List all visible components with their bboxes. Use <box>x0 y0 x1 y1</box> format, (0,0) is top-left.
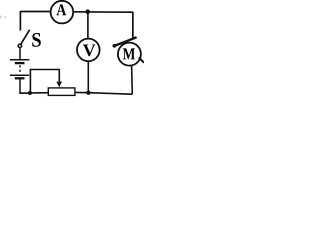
wire bottom left segment <box>19 92 48 95</box>
battery cell1 short plate <box>15 62 25 64</box>
ammeter A1 circle <box>51 1 74 24</box>
wire left vertical (top corner down to switch) <box>19 11 21 31</box>
wire voltmeter bottom lead <box>87 61 89 93</box>
rheostat body R <box>48 88 75 96</box>
label S <box>32 33 41 47</box>
wire switch to battery <box>19 48 21 59</box>
wire right vertical (top corner down to motor) <box>132 12 134 40</box>
ammeter A1 letter A <box>56 4 66 15</box>
switch S blade <box>21 30 30 45</box>
wire bottom right segment <box>75 92 132 94</box>
voltmeter V1 circle <box>77 39 100 62</box>
motor brush diagonal stroke <box>113 37 136 46</box>
battery cell2 short plate <box>15 77 25 79</box>
motor M1 circle <box>118 43 141 66</box>
stray scan speck left edge 2 <box>4 16 6 18</box>
battery dashed continuation <box>19 65 21 74</box>
voltmeter V1 letter V <box>83 44 96 56</box>
battery cell1 long plate <box>10 59 29 61</box>
switch S pivot contact <box>18 44 21 47</box>
rheostat slider arrowhead <box>56 82 62 88</box>
wire motor bottom lead <box>131 66 134 94</box>
motor lower-right tick <box>139 58 144 63</box>
stray scan speck left edge 1 <box>0 16 2 19</box>
wire battery to bottom <box>19 79 21 93</box>
wire top (ammeter to right corner) <box>73 11 133 13</box>
motor M1 letter M <box>123 48 135 59</box>
battery cell2 long plate <box>10 74 29 76</box>
node junction dot (voltmeter bottom) <box>86 91 90 95</box>
node junction dot (top wire to voltmeter) <box>85 9 90 14</box>
node junction dot (rheostat tap) <box>28 91 32 95</box>
wire rheostat slider loop <box>30 70 59 93</box>
wire voltmeter top lead <box>87 12 89 39</box>
motor brush blob end <box>113 44 117 48</box>
wire top (left segment from corner to ammeter) <box>20 11 51 13</box>
